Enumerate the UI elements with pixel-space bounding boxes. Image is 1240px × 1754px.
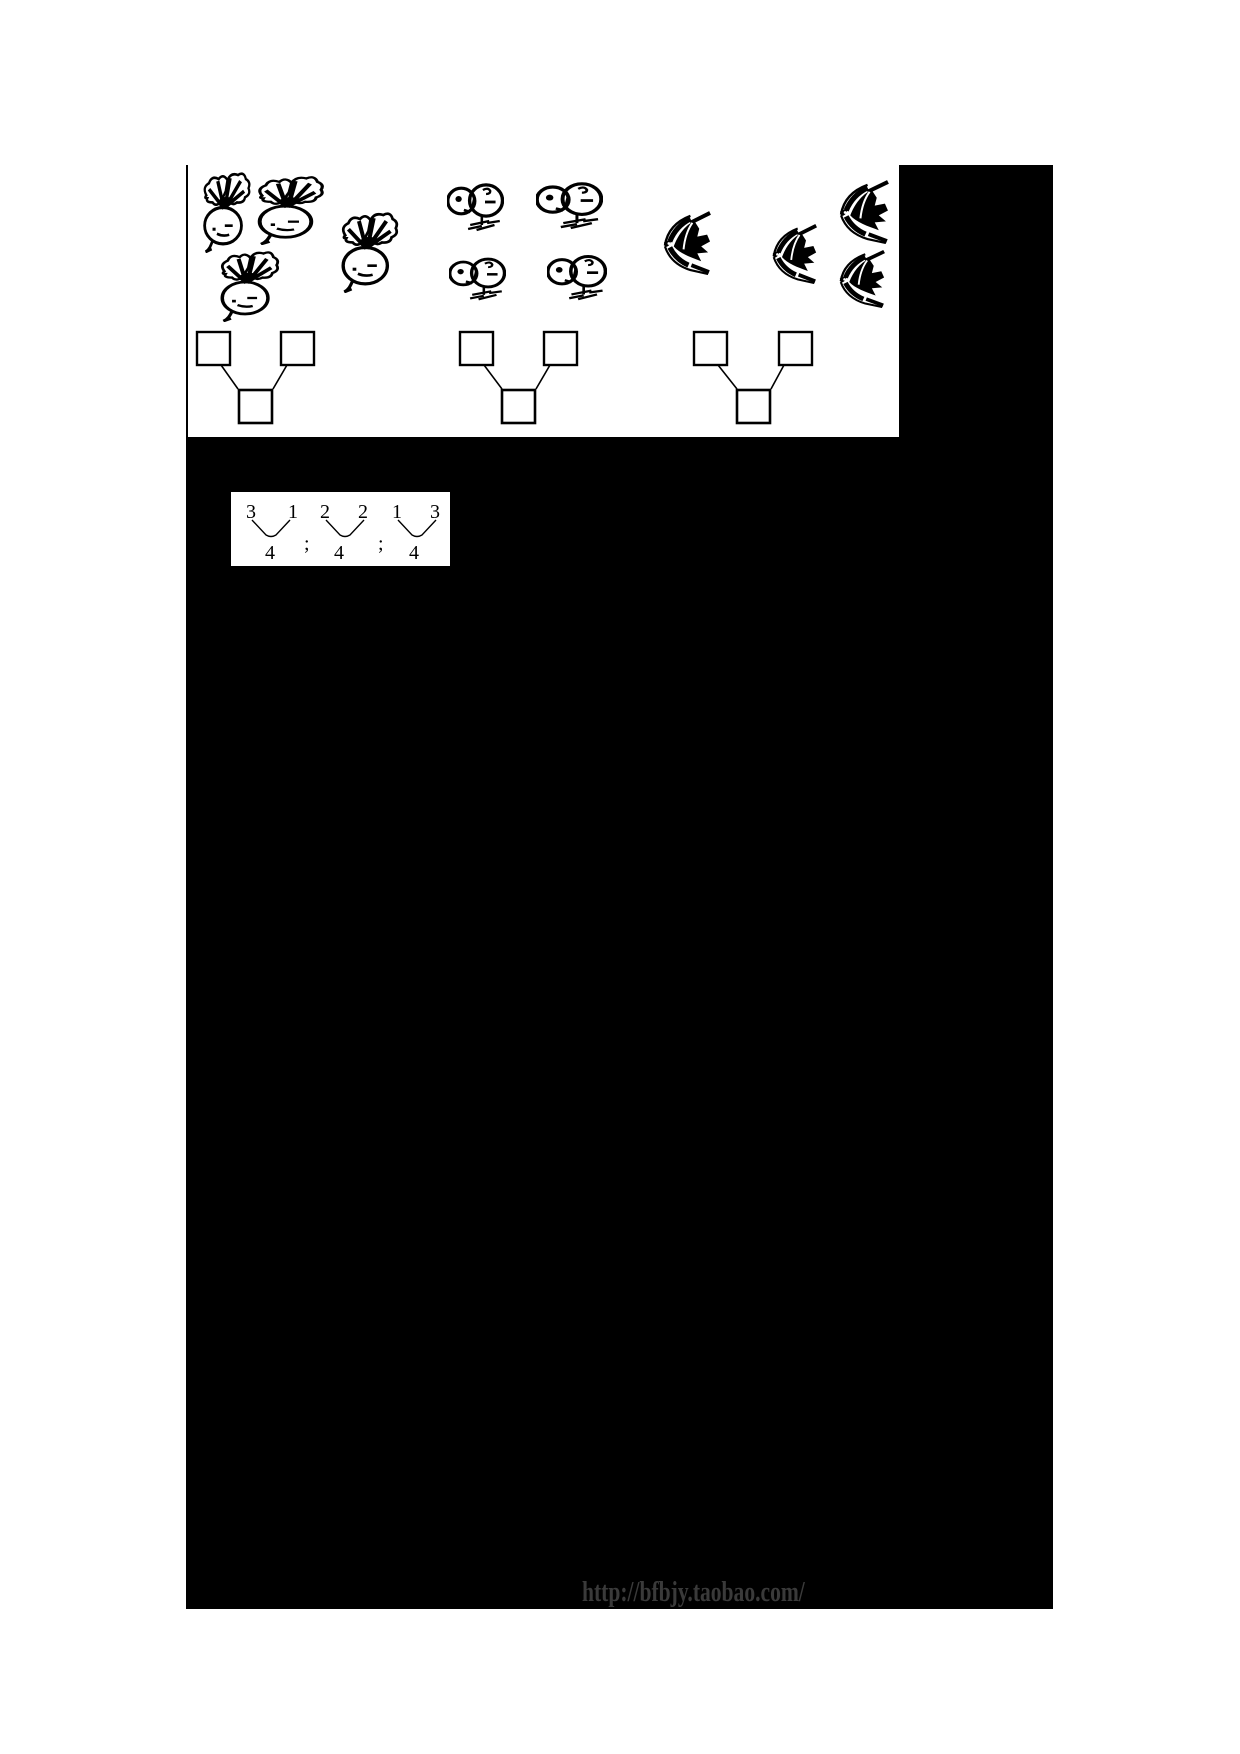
bond3 left line: [718, 365, 737, 389]
bond2 right line: [536, 365, 550, 389]
number bond 1 boxes: [186, 320, 346, 437]
svg-text:4: 4: [334, 542, 344, 564]
svg-text:;: ;: [378, 533, 384, 555]
bond3 right box: [779, 332, 812, 365]
answer strip number bonds: [231, 492, 450, 566]
white content cutout (top-left): [188, 165, 899, 437]
svg-text:3: 3: [430, 501, 440, 523]
fish 3: [837, 178, 890, 244]
bond2 left line: [484, 365, 502, 389]
bond1 left line: [221, 365, 238, 389]
number bond 3 boxes: [684, 320, 844, 437]
radish 4: [340, 211, 400, 293]
bond1 right line: [273, 365, 287, 389]
svg-text:3: 3: [246, 501, 256, 523]
svg-text:;: ;: [304, 533, 310, 555]
v-link 3: [398, 520, 436, 537]
taobao url: [582, 1577, 805, 1609]
radish 2: [256, 175, 326, 245]
radish 1: [202, 171, 252, 253]
fish 1: [661, 209, 712, 275]
chick 1: [447, 177, 504, 233]
svg-text:2: 2: [358, 501, 368, 523]
v-link 1: [252, 520, 290, 537]
bond1 right box: [281, 332, 314, 365]
number bond 2 boxes: [450, 320, 610, 437]
chick 2: [536, 176, 603, 231]
scan black background region: [186, 165, 1053, 1609]
v-link 2: [326, 520, 364, 537]
bond2 right box: [544, 332, 577, 365]
radish 3: [219, 250, 281, 322]
white answer strip box: [231, 492, 450, 566]
svg-text:4: 4: [409, 542, 419, 564]
svg-text:1: 1: [392, 501, 402, 523]
chick 3: [449, 252, 506, 302]
fish 4: [837, 248, 886, 308]
fish 2: [770, 222, 818, 284]
bond1 bottom box: [239, 390, 272, 423]
bond2 left box: [460, 332, 493, 365]
bond1 left box: [197, 332, 230, 365]
bond3 left box: [694, 332, 727, 365]
bond3 right line: [771, 365, 784, 389]
svg-text:4: 4: [265, 542, 275, 564]
bond2 bottom box: [502, 390, 535, 423]
bond3 bottom box: [737, 390, 770, 423]
svg-text:2: 2: [320, 501, 330, 523]
chick 4: [547, 249, 607, 302]
